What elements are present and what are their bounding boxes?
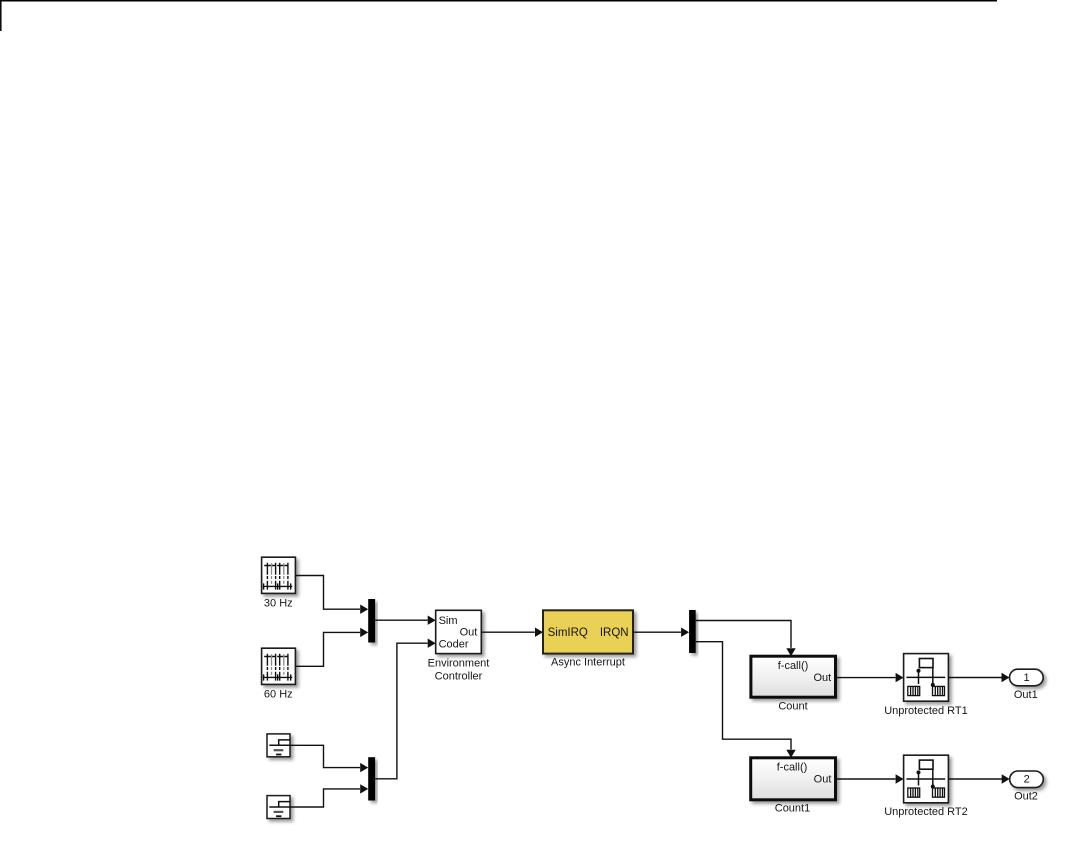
svg-text:Unprotected RT1: Unprotected RT1 (884, 705, 968, 717)
wire Async Interrupt to demux (633, 631, 681, 633)
wire Count to Unprotected RT1 (836, 677, 896, 679)
block Async Interrupt (543, 610, 633, 668)
page top border line (0, 0, 997, 2)
wire RT1 to Out1 (948, 677, 1002, 679)
page left border line (0, 0, 2, 31)
svg-text:Controller: Controller (435, 671, 483, 683)
mux M2 (368, 757, 375, 800)
outport Out1 (1010, 669, 1044, 701)
svg-text:Count1: Count1 (775, 802, 810, 814)
svg-text:IRQN: IRQN (600, 627, 629, 639)
wire 60Hz to mux1 (295, 632, 360, 666)
subsystem Count1 (751, 758, 836, 815)
wire ground2 to mux2 (290, 789, 360, 807)
wire mux1 to Environment Controller Sim (375, 619, 427, 621)
wire RT2 to Out2 (948, 778, 1002, 780)
svg-text:Unprotected RT2: Unprotected RT2 (884, 806, 968, 818)
svg-text:2: 2 (1024, 774, 1030, 786)
wire ground1 to mux2 (290, 745, 360, 767)
mux M1 (368, 599, 375, 643)
wire Environment Controller to Async Interrupt (481, 631, 535, 633)
svg-text:f-call(): f-call() (777, 761, 808, 773)
block Environment Controller (428, 610, 490, 682)
outport Out2 (1010, 771, 1044, 803)
pulse generator 30 Hz (262, 557, 296, 609)
svg-text:1: 1 (1023, 672, 1029, 684)
svg-text:SimIRQ: SimIRQ (548, 627, 588, 639)
svg-text:f-call(): f-call() (778, 660, 809, 672)
block Unprotected RT1 (884, 654, 968, 717)
pulse generator 60 Hz (262, 648, 296, 700)
wire mux2 to Environment Controller Coder (375, 643, 427, 779)
svg-text:Out: Out (460, 627, 478, 639)
block Unprotected RT2 (884, 755, 968, 818)
wire demux out1 to Count trigger (696, 621, 791, 648)
svg-text:Out1: Out1 (1014, 689, 1038, 701)
svg-text:Async Interrupt: Async Interrupt (551, 657, 625, 669)
ground G2 (267, 796, 290, 819)
svg-text:Environment: Environment (428, 658, 490, 670)
svg-text:Out: Out (814, 774, 832, 786)
wire demux out2 to Count1 trigger (696, 642, 791, 750)
svg-text:Out2: Out2 (1014, 791, 1038, 803)
demux D1 (689, 610, 696, 653)
svg-text:Out: Out (813, 672, 831, 684)
wire Count1 to Unprotected RT2 (836, 778, 896, 780)
svg-text:Coder: Coder (439, 638, 469, 650)
svg-text:Count: Count (778, 700, 807, 712)
svg-text:60 Hz: 60 Hz (264, 689, 293, 701)
wire 30Hz to mux1 (295, 576, 360, 610)
ground G1 (267, 734, 290, 757)
svg-text:30 Hz: 30 Hz (264, 598, 293, 610)
svg-text:Sim: Sim (439, 615, 458, 627)
subsystem Count (751, 656, 836, 712)
